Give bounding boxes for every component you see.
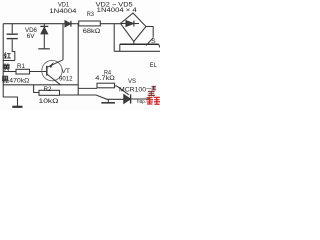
- svg-text:R1: R1: [17, 63, 26, 70]
- svg-text:R3: R3: [87, 11, 94, 18]
- svg-text:1N4004: 1N4004: [49, 8, 77, 15]
- svg-text:68kΩ: 68kΩ: [83, 28, 101, 35]
- svg-text:MCR100: MCR100: [119, 87, 147, 94]
- svg-text:VS: VS: [128, 78, 136, 85]
- svg-text:4.7kΩ: 4.7kΩ: [95, 75, 115, 82]
- svg-text:EL: EL: [150, 62, 158, 69]
- svg-text:10kΩ: 10kΩ: [39, 98, 60, 105]
- svg-text:9012: 9012: [59, 75, 73, 82]
- svg-text:6V: 6V: [27, 33, 36, 40]
- svg-text:http.: http.: [137, 99, 146, 104]
- svg-text:VT: VT: [62, 68, 71, 75]
- svg-text:470kΩ: 470kΩ: [9, 78, 29, 85]
- svg-text:S: S: [151, 38, 156, 45]
- svg-text:R2: R2: [44, 86, 53, 93]
- svg-text:1N4004 × 4: 1N4004 × 4: [97, 7, 138, 14]
